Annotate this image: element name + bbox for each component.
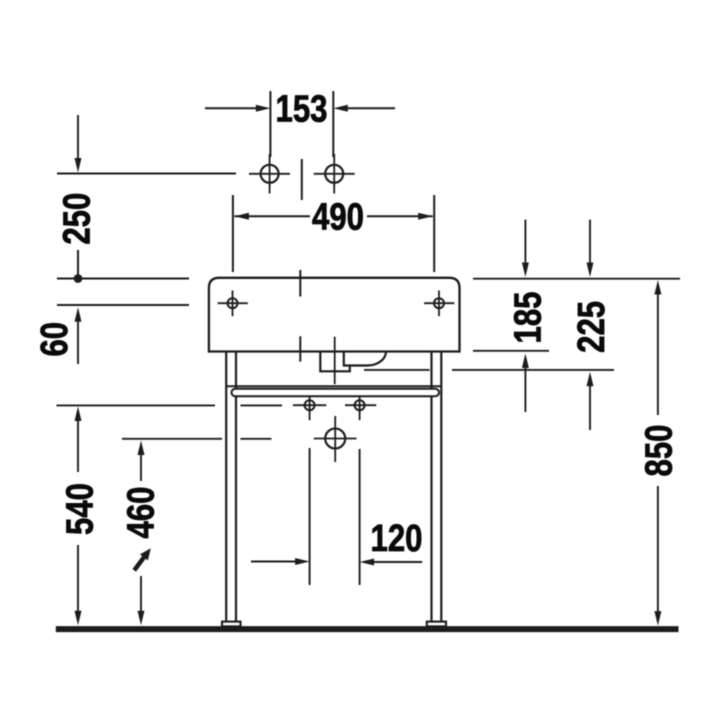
basin fixing hole left bbox=[218, 291, 248, 317]
svg-text:153: 153 bbox=[276, 89, 328, 131]
dimension 153 right arrow bbox=[333, 105, 395, 112]
svg-text:850: 850 bbox=[639, 425, 681, 477]
towel rail top line bbox=[226, 385, 441, 387]
connector line to wall screws bbox=[241, 404, 283, 406]
centre tick between faucet holes bbox=[301, 159, 303, 200]
faucet hole left bbox=[249, 154, 290, 194]
dimension 250 down arrow bbox=[75, 115, 82, 173]
faucet hole right bbox=[314, 154, 355, 194]
dimension 850 down arrow bbox=[654, 486, 661, 626]
dimension 185 up arrow bbox=[522, 354, 529, 413]
screw hole extension line right (120) bbox=[359, 449, 361, 585]
dimension 120 right arrow bbox=[360, 559, 423, 566]
basin top extension line left with dot bbox=[57, 274, 189, 283]
dimension 490 extension line left bbox=[232, 195, 234, 272]
dimension 540 down arrow bbox=[75, 545, 82, 625]
overflow extension line (225) bbox=[364, 369, 614, 371]
dimension 153 extension line right bbox=[332, 91, 334, 157]
adjustability arrow symbol bbox=[132, 548, 150, 572]
fixing line 540 extension bbox=[57, 404, 216, 406]
fixing line 460 extension bbox=[122, 438, 222, 440]
drain outlet hole bbox=[314, 416, 357, 462]
console leg left bbox=[226, 352, 236, 623]
dimension 490 left arrow bbox=[234, 213, 310, 220]
drain centre line bbox=[334, 337, 336, 385]
wall screw hole right bbox=[345, 396, 376, 420]
drain horn outline bbox=[344, 352, 386, 366]
dimension 153 left arrow bbox=[205, 105, 270, 112]
svg-text:490: 490 bbox=[312, 197, 364, 239]
dimension 490 extension line right bbox=[433, 195, 435, 272]
basin bottom extension line right (185) bbox=[473, 350, 549, 352]
svg-text:60: 60 bbox=[34, 322, 76, 357]
svg-text:225: 225 bbox=[571, 301, 613, 353]
faucet centre reference line bbox=[57, 173, 236, 175]
washbasin outline bbox=[209, 278, 460, 352]
dimension 225 up arrow bbox=[587, 372, 594, 430]
dimension 490 right arrow bbox=[367, 213, 433, 220]
console leg right bbox=[432, 352, 442, 623]
svg-text:460: 460 bbox=[121, 487, 163, 539]
centre tick on basin bottom edge bbox=[299, 336, 301, 361]
wall screw hole left bbox=[293, 396, 326, 420]
svg-text:540: 540 bbox=[60, 483, 102, 535]
basin top extension line right bbox=[473, 278, 680, 280]
dimension 120 left arrow bbox=[251, 558, 310, 565]
dimension 225 down arrow bbox=[587, 220, 594, 277]
dimension 540 up arrow bbox=[75, 407, 82, 473]
dimension 153 extension line left bbox=[269, 91, 271, 157]
basin fixing hole right bbox=[424, 291, 454, 317]
fixing hole extension line left bbox=[57, 304, 189, 306]
leg foot left bbox=[222, 622, 241, 627]
screw hole extension line left (120) bbox=[309, 448, 311, 585]
dimension 60 up arrow bbox=[75, 307, 82, 364]
svg-text:250: 250 bbox=[57, 193, 99, 245]
dimension 250 line segment bbox=[77, 250, 79, 275]
drain cup below basin bbox=[320, 352, 350, 372]
dimension 460 up arrow bbox=[138, 441, 145, 482]
floor line bbox=[56, 626, 679, 632]
svg-text:120: 120 bbox=[371, 518, 423, 560]
dimension 460 down arrow bbox=[138, 576, 145, 625]
leg foot right bbox=[427, 622, 446, 627]
centre tick on basin top edge bbox=[299, 270, 301, 297]
svg-text:185: 185 bbox=[508, 292, 550, 344]
towel rail bar bbox=[232, 389, 440, 396]
connector line 460 to drain hole bbox=[241, 438, 272, 440]
dimension 185 down arrow bbox=[522, 220, 529, 277]
dimension 850 up arrow bbox=[654, 280, 661, 415]
